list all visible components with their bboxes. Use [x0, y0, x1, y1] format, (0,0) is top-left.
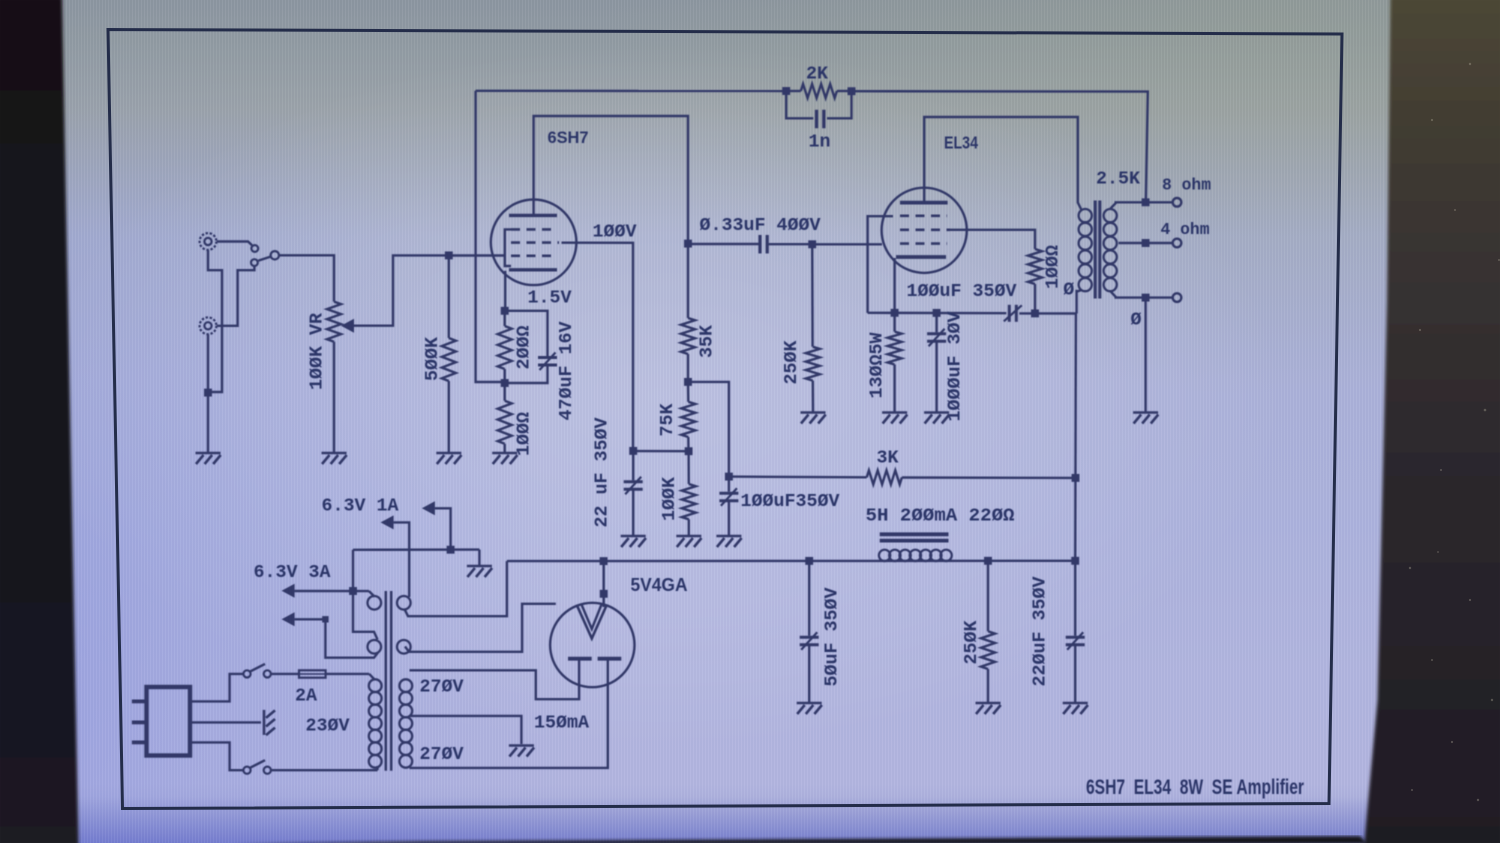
label: 200 ohm	[514, 326, 535, 370]
wire: cathode rail left	[868, 312, 1007, 315]
label: 6.3V 3A	[254, 562, 332, 583]
ground: HV center tap	[509, 746, 534, 757]
label: tube EL34	[944, 133, 978, 153]
label: 50uF 350V	[822, 587, 843, 687]
label: 0.33uF 400V	[700, 215, 822, 236]
inductor L1 5H choke core	[880, 534, 949, 540]
label: 100K VR	[307, 312, 328, 390]
wire: feedback rail drop to cathode node	[476, 91, 505, 382]
transformer T2 heater winding 6.3V-1A left	[368, 596, 382, 610]
svg-text:1ØØΩ: 1ØØΩ	[1043, 245, 1064, 289]
fuse F1 2A	[299, 670, 326, 677]
svg-text:1n: 1n	[809, 132, 831, 153]
label: 150mA	[534, 713, 590, 734]
svg-text:47ØuF 16V: 47ØuF 16V	[556, 321, 577, 421]
wire: EL34 g2 to 100 ohm	[948, 230, 1035, 249]
label: tube 5V4GA	[631, 575, 688, 595]
capacitor C5 100uF 350V inline	[1004, 305, 1022, 322]
junction: 3K rail left node	[725, 473, 733, 481]
resistor R10 130ohm 5W	[888, 313, 902, 412]
label: 35K	[697, 324, 718, 358]
ground: 100uF350V	[716, 536, 741, 547]
pin: 6SH7 cathode bar	[509, 268, 557, 271]
wire: heater arrow A1	[422, 501, 451, 549]
transformer T1 primary winding	[1079, 209, 1092, 291]
wire: EL34 plate to OPT primary	[924, 117, 1078, 203]
wire: feedback rail left	[476, 90, 787, 93]
op-amp: EL34 pentode V2 envelope	[882, 188, 967, 273]
wire: neutral to switch SW2b	[190, 742, 243, 770]
wire: coupling tap to C4	[688, 243, 759, 245]
ground: heater winding	[467, 566, 492, 577]
svg-text:5ØuF 35ØV: 5ØuF 35ØV	[822, 587, 843, 687]
wire: 2K leads	[786, 90, 851, 92]
ground: OPT secondary	[1133, 413, 1158, 424]
ground: 130ohm	[882, 413, 907, 424]
svg-text:2ØØΩ: 2ØØΩ	[514, 326, 535, 370]
label: 1n	[809, 132, 831, 153]
wire: EL34 g3 tie to cathode rail	[868, 216, 893, 313]
wire: C4 to EL34 grid node	[769, 243, 813, 245]
junction: B2 elbow	[322, 616, 328, 622]
wire: tap to 0 terminal	[1146, 296, 1173, 298]
svg-text:15ØmA: 15ØmA	[534, 713, 590, 734]
svg-text:1ØØuF35ØV: 1ØØuF35ØV	[741, 491, 841, 512]
svg-text:25ØK: 25ØK	[961, 620, 982, 665]
pin: 5V4GA filament V inner	[582, 605, 602, 630]
wire: wiper to 6SH7 grid riser	[352, 255, 449, 325]
wire: rail to 5V winding	[405, 561, 507, 616]
label: 1.5V	[528, 288, 573, 309]
label: 100uF 350V	[907, 281, 1018, 302]
svg-text:1ØØK: 1ØØK	[659, 476, 680, 521]
label: 270V bottom	[420, 744, 465, 765]
label: 8 ohm	[1162, 177, 1211, 196]
junction: 1000uF node	[933, 309, 941, 317]
wire: SW2b blade	[250, 760, 266, 768]
svg-text:25ØK: 25ØK	[781, 340, 802, 385]
wire: HV center tap to ground	[410, 716, 522, 744]
wire: switch to fuse	[271, 673, 299, 675]
junction: rectifier output node	[600, 557, 608, 565]
label: 0 secondary	[1131, 310, 1142, 331]
label: tube 6SH7	[548, 128, 589, 147]
pin: inlet pin 1	[132, 700, 147, 704]
pin: 6SH7 grid row g2	[511, 241, 559, 244]
wire: heater arrow B1	[282, 584, 375, 598]
svg-text:1.5V: 1.5V	[528, 288, 573, 309]
ground: input jacks	[196, 453, 221, 464]
resistor R7 100K	[682, 451, 696, 535]
capacitor C3 100uF350V	[719, 477, 738, 535]
svg-text:5H 2ØØmA 22ØΩ: 5H 2ØØmA 22ØΩ	[866, 506, 1015, 527]
label: 100 ohm cathode	[514, 412, 535, 456]
wire: line to switch SW2a	[190, 674, 243, 702]
pin: 6SH7 grid row g1	[511, 255, 557, 258]
junction: cathode top node	[501, 307, 509, 315]
wire: J2 sleeve down to ground	[207, 334, 209, 452]
wire: 1n branch left	[786, 91, 813, 118]
wire: J1 sleeve to ground bus	[208, 250, 222, 392]
ground: 220uF	[1063, 703, 1088, 714]
svg-text:8 ohm: 8 ohm	[1162, 177, 1211, 196]
svg-text:6.3V 1A: 6.3V 1A	[322, 496, 400, 517]
svg-text:3K: 3K	[877, 448, 900, 469]
ground: 250K bleeder	[976, 703, 1001, 714]
junction: 3K right node	[1072, 474, 1080, 482]
svg-text:1ØØuF 35ØV: 1ØØuF 35ØV	[907, 281, 1018, 302]
wire: J2 center to SW1 contact 2	[217, 266, 255, 326]
wire: secondary mid tap	[1119, 242, 1146, 244]
op-amp: 5V4GA rectifier V3 envelope	[550, 603, 634, 687]
svg-text:6SH7 EL34 8W SE Amplifier: 6SH7 EL34 8W SE Amplifier	[1086, 775, 1304, 799]
label: 6.3V 1A	[322, 496, 400, 517]
bezel right	[1364, 0, 1500, 843]
label: 250K grid	[781, 340, 802, 385]
potentiometer VR1 100K	[327, 302, 341, 342]
pin: EL34 plate bar	[900, 201, 948, 205]
label: 220uF 350V	[1030, 576, 1051, 687]
wire: grid node to 6SH7 g1	[449, 254, 505, 256]
junction: 2K left node	[782, 87, 790, 95]
junction: 6.3V winding top node	[349, 587, 357, 595]
junction: divider node	[685, 447, 693, 455]
junction: 50uF node	[805, 557, 813, 565]
wire: fuse to primary top	[326, 674, 375, 680]
wire: cathode rail right	[1019, 312, 1076, 315]
resistor R8 250K grid	[806, 244, 820, 411]
transformer T2 heater winding right bottom	[397, 640, 411, 654]
connector: AC inlet	[147, 687, 191, 756]
wire: pot bottom to ground	[333, 342, 335, 452]
junction: screen bottom node	[1031, 309, 1039, 317]
wire: SW2a blade	[250, 664, 266, 672]
resistor R9 100 ohm screen	[1028, 249, 1042, 313]
label: 100K divider	[659, 476, 680, 521]
wire: SW1 pole to volume pot top	[279, 255, 334, 301]
junction: heater rail node	[447, 546, 455, 554]
node: 0 terminal	[1173, 293, 1182, 302]
wire: 1n branch right	[827, 91, 852, 118]
label: 3K	[877, 448, 900, 469]
label: 0 primary	[1063, 279, 1074, 300]
wire: B+ vertical	[1074, 314, 1077, 561]
capacitor C6 1000uF 30V	[927, 313, 946, 412]
wire: switch to primary bottom	[271, 766, 378, 770]
ground: 250K grid	[801, 413, 826, 424]
transformer T2 heater winding 6.3V-3A left	[368, 640, 382, 654]
label: 470uF 16V	[556, 321, 577, 421]
capacitor C4 0.33uF 400V	[760, 235, 767, 254]
svg-text:1ØØΩ: 1ØØΩ	[514, 412, 535, 456]
svg-text:4 ohm: 4 ohm	[1161, 221, 1210, 240]
svg-text:35K: 35K	[697, 324, 718, 358]
ground: 50uF	[797, 703, 822, 714]
wire: EL34 cathode lead down	[893, 258, 895, 313]
wire: tap to 4 ohm terminal	[1146, 242, 1173, 244]
junction: 0.33uF coupling tap	[684, 240, 692, 248]
junction: screen filter node	[629, 447, 637, 455]
resistor R13 250K bleeder	[981, 561, 995, 702]
transformer T2 primary 230V winding	[369, 679, 382, 767]
capacitor C2 22uF 350V	[624, 451, 643, 535]
transformer T1 secondary winding	[1104, 209, 1117, 291]
resistor R5 35K plate load	[681, 244, 695, 382]
node: selector switch SW1 contact 1	[251, 245, 258, 252]
wire: 6SH7 g2 to screen node	[562, 243, 634, 451]
junction: EL34 grid node	[808, 240, 816, 248]
svg-text:6SH7: 6SH7	[548, 128, 589, 147]
wire: filament to B+ rail	[603, 561, 605, 607]
svg-text:EL34: EL34	[944, 133, 978, 153]
svg-text:1ØØØuF 3ØV: 1ØØØuF 3ØV	[945, 311, 966, 422]
wire: earth pin to ground	[190, 721, 261, 723]
wire: 6SH7 plate lead to top elbow	[534, 116, 688, 244]
node: SW2b contacts	[243, 767, 271, 774]
label: 2A	[295, 686, 318, 707]
wire: SW1 blade	[258, 257, 270, 261]
label: 230V	[306, 716, 351, 737]
junction: 250K node	[984, 557, 992, 565]
pin: 5V4GA filament V outer	[577, 606, 607, 639]
wire: screen node link	[633, 450, 688, 453]
ground: 22uF	[621, 536, 646, 547]
pin: inlet pin 3	[132, 741, 147, 745]
svg-text:2A: 2A	[295, 686, 318, 707]
ground: 100K divider	[676, 536, 701, 547]
svg-text:27ØV: 27ØV	[420, 744, 465, 765]
wire: heater common rail	[353, 548, 479, 551]
wire: heater arrow B2	[282, 612, 378, 658]
svg-text:75K: 75K	[657, 403, 678, 437]
label: 100uF350V	[741, 491, 841, 512]
resistor R6 75K	[681, 382, 695, 451]
wire: grid node to EL34 g1	[812, 243, 882, 245]
op-amp: 6SH7 pentode V1 envelope	[491, 200, 577, 286]
pin: inlet pin 2	[132, 721, 147, 725]
inductor L1 5H choke winding	[879, 550, 952, 561]
pin: EL34 grid row g1	[900, 242, 947, 245]
svg-text:1ØØV: 1ØØV	[593, 222, 638, 243]
wire: filament return to 5V winding	[405, 604, 556, 652]
wire: primary bottom to B+ rail	[1077, 291, 1078, 314]
svg-text:5ØØK: 5ØØK	[422, 336, 443, 381]
resistor R3 200 ohm cathode	[498, 311, 512, 383]
wire: filter rail	[507, 560, 1075, 563]
wire: bypass box bottom	[505, 365, 548, 383]
node: RCA input jack J1 (top)	[200, 233, 217, 250]
label: 4 ohm	[1161, 221, 1210, 240]
wire: 6SH7 cathode lead down	[504, 271, 506, 311]
wire: B node elbow to 3K rail	[688, 382, 729, 477]
wire: secondary top tap	[1111, 202, 1146, 208]
capacitor C9 50uF 350V	[800, 561, 819, 702]
ground: 500K	[436, 453, 461, 464]
junction: 75K top node	[684, 378, 692, 386]
wire: right plate to 270V bottom	[410, 659, 608, 768]
label: title	[1086, 775, 1304, 799]
svg-text:22ØuF 35ØV: 22ØuF 35ØV	[1030, 576, 1051, 687]
capacitor C7 1n	[817, 110, 824, 129]
wire: OPT primary connector stubs	[1077, 203, 1081, 292]
ground: 1000uF	[924, 413, 949, 424]
ground: mains earth	[264, 710, 275, 735]
pin: 5V4GA plate bar right	[598, 657, 622, 661]
ground: volume pot	[322, 453, 347, 464]
label: 100V	[593, 222, 638, 243]
transformer T1 core	[1095, 201, 1100, 299]
junction: 8 ohm tap node	[1142, 198, 1150, 206]
wire: cathode bypass box top+right	[505, 311, 548, 357]
bezel left	[0, 0, 79, 843]
svg-text:Ø: Ø	[1063, 279, 1074, 300]
label: 2.5K	[1096, 169, 1141, 190]
label: 130ohm5W	[867, 332, 888, 399]
junction: grid node of 6SH7	[445, 251, 453, 259]
capacitor C1 470uF 16V	[538, 353, 557, 371]
wire: J1 center to selector contact 1	[217, 242, 252, 246]
resistor R11 2K feedback	[801, 84, 837, 98]
wire: secondary bottom tap	[1111, 291, 1146, 297]
pin: 6SH7 grid bracket	[505, 229, 511, 266]
svg-text:6.3V 3A: 6.3V 3A	[254, 562, 332, 583]
wire: rail to ground stub	[478, 550, 480, 565]
svg-text:5V4GA: 5V4GA	[631, 575, 688, 595]
junction: EL34 cathode node	[891, 309, 899, 317]
pin: EL34 cathode bar	[896, 255, 946, 259]
node: SW2a contacts	[243, 670, 271, 677]
pin: 5V4GA plate bar left	[568, 657, 592, 661]
label: 5H 200mA 220ohm	[866, 506, 1015, 527]
junction: filament lead dot	[600, 590, 608, 598]
node: 8 ohm terminal	[1173, 198, 1182, 207]
ground: 6SH7 cathode network	[492, 453, 517, 464]
svg-text:13ØΩ5W: 13ØΩ5W	[867, 332, 888, 399]
pin: EL34 grid row g3	[900, 215, 947, 218]
svg-text:1ØØK VR: 1ØØK VR	[307, 312, 328, 390]
junction: cathode feedback node	[501, 379, 509, 387]
svg-text:Ø: Ø	[1131, 310, 1142, 331]
resistor R12 3K	[729, 470, 1076, 484]
bezel bottom sliver	[230, 836, 1368, 843]
schematic frame border	[108, 30, 1342, 809]
pin: 6SH7 plate bar	[509, 214, 557, 217]
wire: heater left drop	[353, 550, 378, 640]
junction: B+ filter node	[1071, 557, 1079, 565]
svg-text:22 uF 35ØV: 22 uF 35ØV	[592, 417, 613, 528]
junction: secondary 0 node	[1142, 294, 1150, 302]
wire: tap to 8 ohm terminal	[1146, 201, 1173, 203]
svg-text:23ØV: 23ØV	[306, 716, 351, 737]
capacitor C8 220uF 350V	[1066, 561, 1085, 702]
label: 75K	[657, 403, 678, 437]
pin: EL34 grid row g2	[900, 229, 950, 232]
junction: 4 ohm tap node	[1142, 239, 1150, 247]
resistor R2 500K grid leak	[442, 255, 456, 452]
junction: 2K right node	[848, 87, 856, 95]
node: RCA input jack J2 (bottom)	[200, 317, 217, 334]
junction: input ground bus	[204, 389, 212, 397]
node: selector switch SW1 pole	[271, 251, 279, 259]
svg-text:27ØV: 27ØV	[420, 677, 465, 698]
label: 100 ohm screen	[1043, 245, 1064, 289]
label: 270V top	[420, 677, 465, 698]
transformer T2 heater winding right top	[397, 596, 411, 610]
wire: left plate to 270V top	[410, 659, 580, 700]
svg-text:Ø.33uF 4ØØV: Ø.33uF 4ØØV	[700, 215, 822, 236]
resistor R4 100 ohm	[498, 383, 512, 452]
pin: 6SH7 grid row g3	[511, 228, 557, 231]
node: selector switch SW1 contact 2	[251, 259, 258, 266]
transformer T2 HV secondary winding	[399, 679, 412, 767]
wire: feedback rail right	[852, 91, 1148, 202]
svg-text:2K: 2K	[806, 64, 829, 85]
svg-text:2.5K: 2.5K	[1096, 169, 1141, 190]
label: 22 uF 350V	[592, 417, 613, 528]
label: 1000uF 30V	[945, 311, 966, 422]
label: 2K	[806, 64, 829, 85]
node: 4 ohm terminal	[1173, 239, 1182, 248]
label: 500K	[422, 336, 443, 381]
label: 250K bleeder	[961, 620, 982, 665]
wire: pot wiper arrow	[341, 319, 354, 333]
wire: secondary 0 to ground	[1144, 298, 1146, 412]
wire: heater arrow A2	[381, 515, 410, 597]
transformer T2 core	[386, 591, 391, 771]
